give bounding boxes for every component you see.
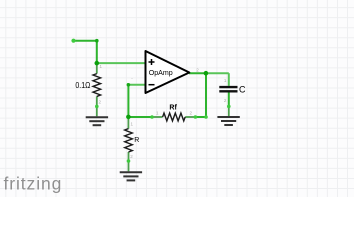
svg-text:0.1Ω: 0.1Ω xyxy=(75,81,90,90)
svg-text:C: C xyxy=(239,85,246,95)
svg-text:OpAmp: OpAmp xyxy=(149,68,173,77)
svg-text:R: R xyxy=(134,137,139,144)
svg-text:fritzing: fritzing xyxy=(4,174,63,194)
svg-text:Rf: Rf xyxy=(169,104,177,111)
